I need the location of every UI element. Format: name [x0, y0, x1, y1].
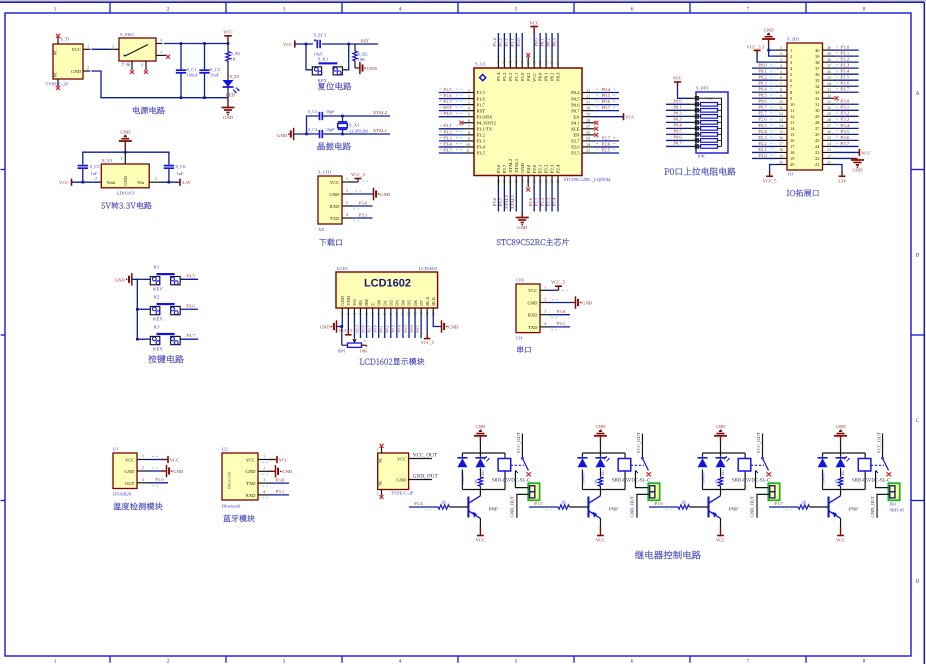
svg-text:P1.2: P1.2 — [508, 72, 513, 81]
diode 1N4007 unit 4 — [818, 457, 828, 485]
svg-text:8: 8 — [383, 312, 387, 314]
svg-text:P1.0: P1.0 — [520, 72, 525, 81]
label relay control circuit — [635, 551, 701, 560]
ground IO port top — [762, 27, 775, 45]
svg-text:SRD-05VDC-SL-C: SRD-05VDC-SL-C — [852, 477, 891, 483]
svg-text:26: 26 — [586, 130, 590, 135]
lcd pin 4 RS — [354, 300, 363, 338]
svg-text:VCC: VCC — [223, 30, 232, 35]
svg-text:P2.2: P2.2 — [544, 164, 549, 173]
svg-text:27: 27 — [586, 124, 590, 129]
svg-text:37: 37 — [827, 63, 831, 68]
svg-text:22: 22 — [815, 156, 819, 161]
svg-text:VCC: VCC — [283, 42, 292, 47]
io pin 36 right — [815, 69, 858, 77]
mcu pin 42 P1.2 top — [504, 33, 513, 81]
connector CH1 body serial — [516, 278, 540, 341]
io pin 32 right — [815, 93, 838, 101]
frame row ticks left/right — [1, 170, 924, 501]
svg-text:8: 8 — [780, 87, 782, 92]
svg-text:VCC_OUT: VCC_OUT — [516, 432, 521, 453]
svg-text:33: 33 — [827, 87, 831, 92]
svg-text:P0.1: P0.1 — [673, 105, 682, 110]
label mcu — [497, 238, 569, 245]
mcu pin 14 XTAL2 bottom — [504, 158, 513, 211]
rp1 resistor pin P0.3 — [666, 117, 722, 125]
svg-text:P0.0: P0.0 — [538, 72, 543, 81]
svg-text:K3: K3 — [154, 324, 160, 330]
svg-text:GND_OUT: GND_OUT — [413, 474, 439, 480]
svg-text:P0.7: P0.7 — [758, 105, 767, 110]
lcd pin 3 VO — [352, 299, 357, 339]
svg-text:P1.4: P1.4 — [841, 69, 850, 74]
mcu pin 44 P1.4 top — [492, 33, 501, 81]
mcu pin 5 P3.0/RX left — [439, 111, 493, 119]
svg-text:8: 8 — [468, 130, 470, 135]
svg-text:P2.5: P2.5 — [758, 123, 767, 128]
svg-text:12: 12 — [779, 111, 783, 116]
io pin 34 right — [815, 81, 858, 89]
svg-text:7: 7 — [780, 81, 782, 86]
svg-text:1K: 1K — [441, 499, 447, 504]
svg-text:EA: EA — [573, 114, 580, 119]
svg-text:D1: D1 — [382, 300, 387, 306]
svg-text:3: 3 — [142, 477, 144, 482]
svg-text:LCD1602: LCD1602 — [419, 266, 438, 271]
led indicator unit 4 — [836, 456, 850, 478]
svg-text:U1: U1 — [113, 447, 119, 452]
lcd pin 5 RW — [360, 298, 369, 338]
io pin 26 right — [815, 129, 858, 137]
svg-text:DS18B20: DS18B20 — [113, 492, 132, 497]
svg-text:40: 40 — [520, 61, 524, 65]
lcd pin 10 D3 — [391, 300, 400, 338]
svg-text:P4.2: P4.2 — [526, 72, 531, 81]
svg-text:P3.5: P3.5 — [477, 151, 486, 156]
svg-text:6: 6 — [631, 6, 634, 12]
svg-text:1K: 1K — [593, 479, 598, 484]
svg-text:3: 3 — [283, 6, 286, 12]
io pin 15 left — [752, 129, 795, 137]
svg-text:33: 33 — [586, 88, 590, 93]
svg-text:41: 41 — [514, 61, 518, 65]
svg-text:P0.2: P0.2 — [385, 325, 390, 332]
svg-text:1: 1 — [341, 312, 345, 314]
svg-text:P1.2: P1.2 — [841, 57, 850, 62]
svg-text:P2.4: P2.4 — [758, 129, 767, 134]
svg-text:P3.5: P3.5 — [186, 273, 195, 278]
svg-text:31: 31 — [815, 102, 819, 107]
svg-text:P2.4: P2.4 — [556, 164, 561, 173]
svg-text:39: 39 — [526, 61, 530, 65]
wire key K2 to net — [137, 294, 198, 322]
diode 1N4007 unit 1 — [457, 457, 467, 485]
junction key bus K3 — [136, 338, 139, 341]
ground 5V33 top — [119, 129, 132, 152]
svg-text:22: 22 — [556, 180, 560, 184]
wire crystal upper rail — [307, 116, 391, 134]
svg-text:S_SW1: S_SW1 — [120, 32, 135, 37]
io pin 7 left — [752, 81, 793, 89]
lcd pin 15 BLA — [420, 296, 434, 345]
io pin 39 right — [815, 51, 858, 59]
io pin 37 right — [815, 63, 858, 71]
wire reset right branch down — [343, 44, 349, 70]
capacitor S_C1 100uF — [176, 44, 199, 98]
transistor PNP unit 3 — [709, 490, 739, 529]
svg-text:P2.2: P2.2 — [540, 197, 545, 206]
svg-text:Bluetooth: Bluetooth — [227, 471, 232, 489]
svg-text:2: 2 — [790, 54, 792, 59]
relay switch unit 2 — [631, 432, 651, 476]
svg-text:40: 40 — [827, 45, 831, 50]
svg-text:2: 2 — [167, 6, 170, 12]
svg-text:38: 38 — [532, 61, 536, 65]
svg-text:P3.2: P3.2 — [477, 133, 486, 138]
pin 2 U1 GND — [137, 465, 184, 477]
svg-text:3: 3 — [780, 57, 782, 62]
mcu pin 27 ALE right — [571, 124, 599, 132]
svg-text:39: 39 — [827, 51, 831, 56]
svg-text:1: 1 — [263, 454, 265, 459]
transistor PNP unit 1 — [468, 490, 498, 529]
mcu pin 19 P2.1 bottom — [534, 164, 543, 212]
pin 1 V1 top stub — [120, 152, 125, 164]
svg-text:30: 30 — [827, 105, 831, 110]
svg-text:1: 1 — [54, 658, 57, 664]
terminal block unit 3 — [768, 483, 779, 500]
svg-text:P2.5: P2.5 — [602, 147, 611, 152]
pin 2 Vout stub — [95, 176, 97, 181]
wire VCC to Vout — [72, 181, 102, 183]
svg-text:GND_OUT: GND_OUT — [750, 496, 755, 518]
base resistor 1K unit 3 — [649, 499, 708, 510]
svg-text:P3.1: P3.1 — [557, 321, 566, 326]
svg-text:GND: GND — [517, 225, 528, 230]
ground IO pin22 symbol — [851, 158, 864, 172]
pin 1 CH1 VCC wire to VCC_5 — [342, 172, 369, 182]
svg-text:NC: NC — [377, 457, 382, 463]
svg-text:43: 43 — [503, 61, 507, 65]
svg-text:VCC_5: VCC_5 — [763, 178, 778, 183]
pin 2 CH1 GND — [540, 296, 593, 308]
svg-text:P2.3: P2.3 — [550, 164, 555, 173]
svg-text:VCC_OUT: VCC_OUT — [636, 432, 641, 453]
io pin 2 left — [769, 50, 793, 59]
mcu pin 9 P3.3 left — [439, 135, 486, 143]
svg-text:1: 1 — [790, 48, 792, 53]
pin 4 CH1 TXD P3.1 — [540, 321, 570, 330]
svg-text:P3.3: P3.3 — [443, 135, 452, 140]
svg-text:S_C6: S_C6 — [176, 164, 187, 169]
svg-text:P1.3: P1.3 — [841, 63, 850, 68]
svg-text:S_EC1: S_EC1 — [314, 32, 327, 37]
svg-text:1: 1 — [346, 176, 348, 181]
svg-text:P3.3: P3.3 — [477, 139, 486, 144]
io pin 5 left — [752, 69, 793, 77]
svg-text:P1.6: P1.6 — [443, 93, 452, 98]
svg-text:KEY: KEY — [153, 316, 163, 322]
mcu pin 41 P1.1 top — [510, 33, 519, 81]
svg-text:P2.3: P2.3 — [546, 197, 551, 206]
svg-text:P0.5: P0.5 — [758, 93, 767, 98]
svg-text:2: 2 — [142, 465, 144, 470]
svg-text:1N4007: 1N4007 — [460, 472, 465, 485]
label IO port — [787, 189, 819, 196]
svg-text:10K: 10K — [358, 57, 367, 62]
svg-text:NC: NC — [53, 49, 58, 55]
relay coil SRD-05VDC-SL-C unit 1 — [492, 459, 531, 484]
led S_D1 — [223, 61, 240, 98]
svg-text:P3.2: P3.2 — [443, 129, 452, 134]
mcu pin 28 P4.1 right — [571, 118, 598, 126]
io pin 8 left — [752, 87, 793, 95]
mcu pin 21 P2.3 bottom — [546, 164, 555, 212]
wire T1.VCC to switch — [92, 48, 110, 50]
mcu pin 13 P3.7 bottom — [498, 164, 507, 212]
wire T1.GND down and right to ground rail — [92, 71, 228, 98]
pin 3 Vin stub — [149, 176, 163, 182]
svg-text:VCC: VCC — [529, 20, 538, 25]
svg-text:P0.4: P0.4 — [758, 87, 767, 92]
svg-text:RST: RST — [443, 105, 452, 110]
power port VCC pullup — [673, 76, 682, 87]
pin 4 U2 RXD P3.1 — [258, 489, 289, 498]
svg-text:P3.7: P3.7 — [502, 164, 507, 173]
svg-text:D4: D4 — [401, 300, 406, 306]
module U2 bluetooth body — [222, 447, 258, 509]
svg-text:42: 42 — [509, 61, 513, 65]
svg-text:VCC: VCC — [476, 537, 485, 542]
rp1 resistor pin P0.4 — [666, 123, 722, 131]
wire crystal lower rail — [294, 133, 390, 135]
svg-text:GND_OUT: GND_OUT — [630, 496, 635, 518]
svg-text:GND: GND — [120, 129, 131, 134]
svg-text:19: 19 — [779, 153, 783, 158]
svg-text:S_T1: S_T1 — [60, 37, 71, 42]
wire reset left branch down — [306, 44, 312, 70]
svg-text:P0.1: P0.1 — [379, 325, 384, 332]
svg-text:3: 3 — [544, 309, 546, 314]
mcu pin 39 P4.2 top — [526, 53, 531, 81]
power port VCC reset — [283, 40, 295, 47]
terminal wires unit 4 — [870, 471, 890, 518]
svg-text:P1.7: P1.7 — [841, 87, 850, 92]
svg-text:1: 1 — [160, 49, 162, 54]
capacitor S_EC1 10uF polarized — [313, 32, 326, 56]
label reset circuit — [318, 82, 352, 90]
svg-text:P3.2: P3.2 — [841, 111, 850, 116]
svg-text:GND: GND — [853, 167, 864, 172]
svg-text:4: 4 — [780, 63, 782, 68]
svg-text:GND: GND — [277, 133, 288, 138]
svg-text:P0.0: P0.0 — [534, 38, 539, 47]
svg-text:30pF: 30pF — [326, 127, 336, 132]
svg-text:28: 28 — [827, 117, 831, 122]
mcu pin 11 P3.5 left — [439, 147, 486, 155]
svg-text:P2.7: P2.7 — [571, 139, 580, 144]
svg-text:GND: GND — [125, 469, 136, 474]
svg-text:1: 1 — [780, 45, 782, 50]
resistor S_R2 10K — [353, 44, 368, 68]
svg-text:17: 17 — [779, 141, 783, 146]
svg-text:6: 6 — [780, 75, 782, 80]
io pin 40 right — [815, 45, 858, 53]
svg-text:5: 5 — [127, 62, 129, 67]
ground relay unit 4 — [834, 424, 847, 453]
svg-text:P3.4: P3.4 — [841, 123, 850, 128]
svg-text:1K: 1K — [681, 499, 687, 504]
svg-text:13: 13 — [503, 180, 507, 184]
svg-text:GND: GND — [520, 162, 525, 173]
svg-text:VCC: VCC — [625, 115, 634, 120]
svg-text:VDD: VDD — [346, 295, 351, 305]
svg-text:RXD: RXD — [246, 493, 256, 498]
mcu pin 26 EN right — [573, 130, 598, 138]
svg-text:P4.3/INT2: P4.3/INT2 — [477, 120, 497, 125]
power port 3.3V — [180, 179, 192, 186]
svg-text:VCC: VCC — [836, 537, 845, 542]
svg-text:KEY: KEY — [153, 346, 163, 352]
svg-text:P0.3: P0.3 — [391, 325, 396, 332]
svg-text:16: 16 — [779, 135, 783, 140]
led indicator unit 3 — [716, 456, 730, 478]
pin 5 S_T1 bottom no-erc — [56, 79, 60, 90]
io pin 13 left — [752, 117, 795, 125]
svg-text:SRD-05VDC-SL-C: SRD-05VDC-SL-C — [492, 477, 531, 483]
svg-text:GND: GND — [595, 424, 606, 429]
svg-text:VCC_OUT: VCC_OUT — [756, 432, 761, 453]
svg-text:10K: 10K — [360, 348, 369, 353]
svg-text:14: 14 — [509, 180, 513, 184]
svg-text:PNP: PNP — [609, 506, 618, 512]
pin top relay connector no-erc — [377, 444, 384, 453]
svg-text:P2.3: P2.3 — [758, 135, 767, 140]
svg-text:P0.2: P0.2 — [546, 38, 551, 47]
svg-text:3.3V: 3.3V — [182, 180, 192, 185]
svg-text:P2.5: P2.5 — [571, 151, 580, 156]
svg-text:2: 2 — [263, 465, 265, 470]
svg-text:VCC: VCC — [861, 150, 870, 155]
svg-text:10: 10 — [779, 99, 783, 104]
mcu pin 18 P2.0 bottom — [528, 164, 537, 212]
label download port — [319, 239, 342, 246]
label P0 pullup — [665, 167, 736, 175]
resistor 1K vertical unit 4 — [833, 468, 842, 490]
svg-text:P0.6: P0.6 — [758, 99, 767, 104]
svg-text:GND: GND — [448, 324, 459, 329]
io pin 10 left — [752, 99, 795, 107]
svg-text:P1.5: P1.5 — [477, 90, 486, 95]
svg-text:Bluetooth: Bluetooth — [222, 504, 241, 509]
svg-text:P0.4: P0.4 — [602, 87, 611, 92]
svg-text:S_C4: S_C4 — [308, 127, 319, 132]
lcd pin 2 VDD — [339, 295, 353, 334]
power port VCC power circuit — [223, 30, 232, 44]
mcu pin 43 P1.3 top — [498, 33, 507, 81]
svg-text:2: 2 — [347, 312, 351, 314]
svg-text:VO: VO — [352, 299, 357, 306]
svg-text:1: 1 — [377, 448, 379, 452]
svg-text:24: 24 — [827, 141, 831, 146]
svg-text:1K: 1K — [713, 479, 718, 484]
svg-text:VCC: VCC — [673, 76, 682, 81]
svg-text:P1.0: P1.0 — [516, 38, 521, 47]
led indicator unit 1 — [475, 456, 489, 478]
svg-text:2: 2 — [112, 43, 114, 48]
svg-text:32: 32 — [586, 94, 590, 99]
svg-text:37: 37 — [538, 61, 542, 65]
svg-text:5: 5 — [515, 658, 518, 664]
svg-text:D3: D3 — [395, 300, 400, 306]
io pin 29 right — [815, 111, 858, 119]
label bluetooth module — [223, 515, 254, 522]
svg-text:A: A — [916, 90, 920, 96]
lcd pin 6 E — [366, 303, 375, 338]
svg-text:S_C3: S_C3 — [308, 109, 319, 114]
svg-text:P3.7: P3.7 — [498, 197, 503, 206]
svg-text:P1.4: P1.4 — [414, 501, 423, 506]
svg-text:P3.5: P3.5 — [841, 129, 850, 134]
resistor S_R1 1K — [226, 44, 241, 62]
mcu S_U1 body STC89C52RC — [474, 62, 611, 184]
svg-text:GND: GND — [528, 300, 539, 305]
svg-text:1K: 1K — [231, 57, 237, 62]
pin 3 U2 TXD P3.0 — [258, 477, 289, 486]
lcd pin 8 D1 — [379, 300, 388, 338]
svg-text:29: 29 — [827, 111, 831, 116]
mcu pin 1 P1.5 left — [439, 87, 486, 95]
svg-text:P0.1: P0.1 — [544, 72, 549, 81]
svg-text:15: 15 — [514, 180, 518, 184]
label 5V to 3.3V circuit — [101, 202, 151, 209]
svg-text:GND_OUT: GND_OUT — [870, 496, 875, 518]
svg-text:44: 44 — [497, 61, 501, 65]
junction crystal top tap — [341, 115, 344, 118]
svg-text:P2.6: P2.6 — [360, 325, 365, 332]
svg-text:P3.6: P3.6 — [492, 197, 497, 206]
svg-text:3: 3 — [364, 338, 366, 343]
svg-text:S_C1: S_C1 — [187, 67, 197, 72]
svg-text:Vout: Vout — [107, 180, 116, 185]
svg-text:P0.0: P0.0 — [673, 99, 682, 104]
lcd pin 12 D5 — [403, 300, 412, 338]
lcd pin 11 D4 — [397, 300, 406, 338]
svg-text:P0.7: P0.7 — [571, 108, 580, 113]
svg-text:S_CH1: S_CH1 — [318, 170, 332, 175]
svg-text:38: 38 — [827, 57, 831, 62]
mcu pin 29 EA right — [573, 112, 634, 121]
svg-text:P0.6: P0.6 — [571, 102, 580, 107]
svg-text:TXD: TXD — [528, 325, 538, 330]
svg-text:P1.1: P1.1 — [514, 72, 519, 81]
svg-text:P4.1: P4.1 — [571, 120, 580, 125]
svg-text:1: 1 — [87, 43, 89, 48]
regulator S_V1 LDO3V3 body — [101, 158, 149, 196]
mcu pin 15 XTAL1 bottom — [510, 158, 519, 211]
svg-text:P2.0: P2.0 — [758, 153, 767, 158]
svg-text:P0.4: P0.4 — [673, 123, 682, 128]
svg-text:P3.3: P3.3 — [841, 117, 850, 122]
mcu pin 20 P2.2 bottom — [540, 164, 549, 212]
svg-text:P2.6: P2.6 — [571, 145, 580, 150]
junction crystal left — [305, 133, 308, 136]
svg-text:SRD-05: SRD-05 — [890, 508, 906, 513]
svg-text:6: 6 — [468, 118, 470, 123]
svg-text:P1.5: P1.5 — [443, 87, 452, 92]
svg-text:D5: D5 — [407, 300, 412, 306]
svg-text:2: 2 — [780, 51, 782, 56]
